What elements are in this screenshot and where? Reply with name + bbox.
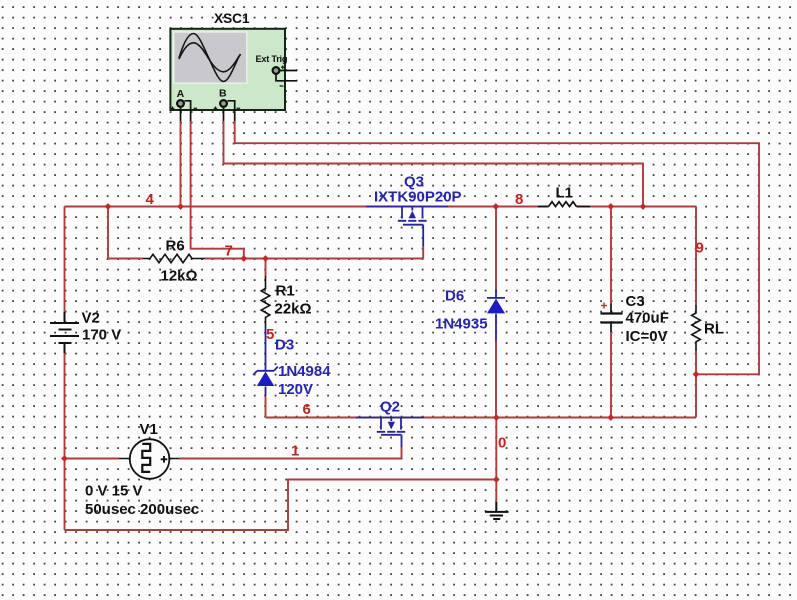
wire node0 rail: [266, 417, 697, 419]
junction V1-minus: [61, 455, 68, 462]
svg-text:50usec 200usec: 50usec 200usec: [85, 501, 199, 518]
junction node4-scopeA: [177, 203, 184, 210]
wire scope B- top run: [235, 121, 759, 374]
junction node4-R6: [105, 203, 112, 210]
svg-text:V1: V1: [140, 421, 158, 438]
terminal B: [220, 100, 227, 107]
wire node7 R6 output: [108, 246, 423, 259]
battery V2: [50, 312, 79, 353]
svg-text:1N4935: 1N4935: [435, 316, 488, 333]
svg-text:22kΩ: 22kΩ: [275, 301, 312, 318]
junction node8-C3: [607, 203, 614, 210]
svg-text:6: 6: [303, 401, 311, 418]
wire node4 top rail: [65, 206, 697, 208]
resistor R1: [261, 276, 270, 327]
wire node1: [179, 447, 402, 459]
svg-text:XSC1: XSC1: [214, 11, 250, 26]
wire V2 top lead: [64, 207, 66, 313]
svg-text:RL: RL: [704, 321, 724, 338]
svg-text:5: 5: [266, 326, 274, 343]
capacitor C3: [601, 304, 623, 333]
svg-text:7: 7: [225, 243, 233, 260]
wire D6 branch: [495, 207, 497, 418]
svg-text:B: B: [219, 88, 227, 100]
svg-text:D3: D3: [275, 337, 294, 354]
svg-text:D6: D6: [445, 288, 464, 305]
polarity marks: [171, 66, 285, 111]
junction node8-scopeB: [640, 203, 647, 210]
wire bottom loop: [65, 480, 497, 531]
wire node6 vertical D3 branch: [265, 259, 267, 418]
svg-text:IXTK90P20P: IXTK90P20P: [374, 189, 462, 206]
svg-text:V2: V2: [82, 310, 100, 327]
junction node7-R1: [262, 255, 269, 262]
wire V1 left: [65, 458, 120, 460]
svg-text:Q2: Q2: [380, 399, 400, 416]
svg-text:0: 0: [498, 435, 506, 452]
svg-text:1: 1: [291, 443, 299, 460]
wire ground vertical: [495, 418, 497, 503]
junction node7-scopeA2: [240, 255, 247, 262]
wire scope A+: [180, 121, 182, 207]
svg-text:12kΩ: 12kΩ: [161, 268, 198, 285]
terminal A: [177, 100, 184, 107]
terminal Ext Trig: [273, 67, 280, 74]
resistor R6: [143, 254, 205, 262]
svg-text:4: 4: [146, 191, 155, 208]
pulse source V1: [119, 439, 179, 479]
svg-text:R6: R6: [166, 238, 185, 255]
terminal A loop lead: [185, 101, 191, 121]
svg-text:1N4984: 1N4984: [278, 363, 331, 380]
junction ground-node: [493, 476, 500, 483]
wire scope A- detour: [191, 121, 244, 259]
svg-text:8: 8: [515, 191, 523, 208]
svg-text:9: 9: [696, 240, 704, 257]
junction node0-D6: [493, 414, 500, 421]
oscilloscope XSC1: [170, 29, 297, 121]
inductor L1: [538, 202, 590, 207]
wire scope B+: [224, 121, 644, 207]
junction node0-C3: [607, 414, 614, 421]
C3 plus sign: [601, 303, 607, 309]
svg-text:C3: C3: [626, 293, 645, 310]
scope trace: [179, 34, 241, 82]
svg-text:0 V 15 V: 0 V 15 V: [85, 483, 143, 500]
zener diode D3: [253, 327, 278, 396]
mosfet Q3: [366, 207, 448, 247]
svg-text:L1: L1: [556, 185, 574, 202]
svg-text:R1: R1: [276, 283, 295, 300]
wire V2 bottom lead to left rail: [64, 353, 66, 530]
mosfet Q2: [356, 418, 424, 448]
terminal B loop lead: [228, 101, 235, 121]
wire RL branch: [695, 207, 697, 418]
svg-text:IC=0V: IC=0V: [626, 328, 668, 345]
ext trig leads: [280, 70, 297, 72]
wire C3 branch: [610, 207, 612, 418]
svg-text:470uF: 470uF: [626, 310, 669, 327]
junction node8-D6: [492, 203, 499, 210]
ground: [485, 502, 509, 519]
resistor RL: [692, 305, 701, 351]
svg-text:170 V: 170 V: [82, 327, 121, 344]
svg-text:Ext Trig: Ext Trig: [256, 54, 288, 64]
svg-text:A: A: [177, 88, 185, 100]
diode D6: [487, 290, 505, 342]
junction RL-bottom: [693, 371, 700, 378]
svg-text:120V: 120V: [278, 381, 313, 398]
wire R6 left drop: [107, 207, 109, 259]
